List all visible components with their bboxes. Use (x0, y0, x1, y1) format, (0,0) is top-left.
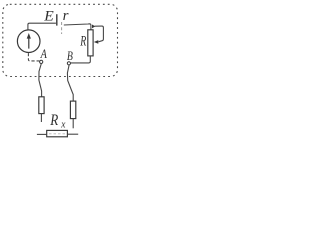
wire below right resistor (72, 119, 74, 129)
terminal B (67, 62, 70, 65)
wire battery to junction corner (64, 24, 91, 30)
Rx right lead (67, 133, 78, 135)
source G (circle with arrow) (17, 30, 40, 53)
svg-text:E: E (43, 9, 54, 25)
svg-text:A: A (40, 46, 47, 61)
junction arrow (right-pointing) (92, 25, 95, 29)
resistor Rx body (47, 130, 68, 136)
resistor Rx inner mark (49, 133, 65, 135)
wire terminal B down out of box (67, 65, 73, 101)
svg-text:r: r (63, 8, 69, 24)
resistor below B body (70, 101, 75, 119)
rheostat R body (88, 30, 93, 56)
svg-text:R: R (49, 112, 58, 129)
wiper wire with arrow (94, 26, 104, 44)
wire terminal A down out of box (39, 64, 42, 97)
resistor below A body (39, 97, 44, 114)
dashed enclosure box (3, 4, 118, 76)
Rx left lead (37, 133, 47, 135)
svg-text:x: x (60, 119, 66, 130)
terminal A (40, 60, 43, 63)
svg-text:R: R (80, 34, 87, 50)
wire source bottom to terminal A (28, 53, 39, 61)
wire rheostat bottom to terminal B (71, 56, 91, 63)
svg-text:B: B (67, 48, 73, 63)
wire source top to battery (28, 23, 56, 30)
wire below left resistor (40, 114, 42, 122)
battery short plate (faint) (61, 22, 63, 34)
battery E,r long plate (56, 14, 58, 25)
label Rx (49, 112, 65, 130)
